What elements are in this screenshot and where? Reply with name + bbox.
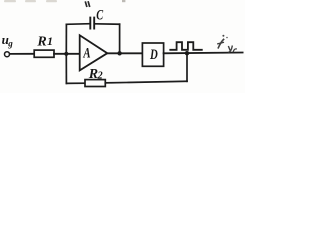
wire D to output [164,52,243,55]
wire C branch right vertical down [119,24,121,53]
scan smudge top-left [4,0,57,2]
capacitor C [90,18,94,29]
wire top right (capacitor to node B) [95,23,120,25]
wire R2 branch right vertical up to node C [186,53,188,81]
wire bottom left to R2 [66,82,85,84]
svg-text:g: g [7,39,13,49]
wire node A up (C branch left vertical) [65,24,67,54]
svg-text:A: A [83,44,91,61]
wire top left (to capacitor) [66,23,89,26]
node C (R2 feedback junction) [185,51,189,55]
label u_out (blurred scan marks) [218,35,236,53]
input terminal [5,52,10,57]
op-amp U1 (triangle) [80,35,108,70]
wire input to R1 [10,53,34,55]
wire R2 to right vertical [105,81,187,83]
label ug (input voltage) [2,32,14,49]
scan dot top-right [122,0,125,2]
svg-text:1: 1 [47,34,53,48]
wire R1 to amp [54,53,80,55]
resistor R2 [85,80,105,87]
pulse waveform symbol [170,42,202,50]
node A (inverting input junction) [64,52,68,56]
label R2 [88,67,103,82]
resistor R1 [34,50,54,57]
svg-text:C: C [96,7,103,23]
wire node A down (R2 branch left vertical) [65,54,67,84]
svg-text:R: R [88,67,98,82]
svg-text:D: D [149,45,158,62]
wire amp output to D [107,52,142,54]
scan mark top-center [86,2,90,6]
svg-text:R: R [36,34,46,49]
label R1 [36,34,53,49]
comparator block D [142,43,163,66]
svg-text:2: 2 [97,71,103,82]
node B (output feedback junction) [117,51,121,55]
